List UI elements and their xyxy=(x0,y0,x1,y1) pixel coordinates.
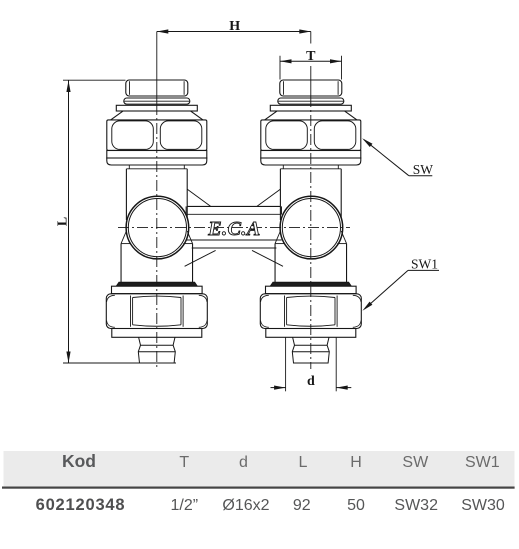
left valve collar xyxy=(112,286,203,293)
svg-text:L: L xyxy=(299,454,308,471)
right valve top thread cap xyxy=(280,80,342,96)
dimension H line xyxy=(157,31,311,33)
svg-text:SW1: SW1 xyxy=(465,454,500,471)
svg-text:T: T xyxy=(306,49,316,64)
right valve barbed tailpiece xyxy=(292,337,329,363)
right valve bottom hex nut SW1 xyxy=(260,294,361,329)
right valve collar xyxy=(266,286,357,293)
left valve bottom washer xyxy=(112,329,202,338)
right valve o-ring collar xyxy=(278,98,344,104)
left valve taper to union nut xyxy=(110,111,123,120)
SW leader and label xyxy=(364,140,409,176)
bridge bottom edge xyxy=(192,247,277,249)
SW1 leader and label xyxy=(365,270,408,309)
right valve flange xyxy=(270,105,351,111)
left valve union nut SW xyxy=(107,120,207,150)
svg-text:Ø16x2: Ø16x2 xyxy=(222,497,269,514)
bridge gusset bottom-right xyxy=(252,250,283,266)
right valve skirt band xyxy=(261,158,361,165)
svg-text:602120348: 602120348 xyxy=(36,496,126,514)
right valve port bore circle xyxy=(280,196,343,259)
bridge gusset bottom-left xyxy=(185,250,216,266)
bridge plaque top line xyxy=(186,213,282,215)
svg-text:L: L xyxy=(55,217,70,226)
dimension T line xyxy=(280,60,342,62)
left valve lower body xyxy=(120,244,122,283)
left valve bottom hex nut SW1 xyxy=(106,294,207,329)
right valve side wedges xyxy=(275,231,280,244)
svg-text:H: H xyxy=(229,19,240,34)
left valve port bore circle xyxy=(126,196,189,259)
dimension d extension lines xyxy=(285,338,287,392)
left valve washer under union nut xyxy=(107,151,207,159)
bridge gusset top-left xyxy=(187,189,210,206)
svg-text:1/2”: 1/2” xyxy=(171,497,199,514)
bridge end connector right xyxy=(281,206,283,214)
svg-text:92: 92 xyxy=(293,497,311,514)
svg-text:T: T xyxy=(179,454,189,471)
bridge top edge xyxy=(187,205,281,207)
right valve centerline xyxy=(310,32,312,44)
left valve o-ring collar xyxy=(124,98,190,104)
svg-text:SW32: SW32 xyxy=(394,497,438,514)
left valve side wedges xyxy=(121,231,126,244)
svg-text:50: 50 xyxy=(347,497,365,514)
svg-text:SW: SW xyxy=(402,454,429,471)
svg-text:d: d xyxy=(307,374,315,389)
right valve bottom washer xyxy=(266,329,356,338)
right valve upper tube xyxy=(279,169,281,220)
svg-text:Kod: Kod xyxy=(62,451,96,471)
left valve skirt band xyxy=(107,158,207,165)
bridge gusset top-right xyxy=(257,189,280,206)
left valve neck xyxy=(128,165,130,169)
left valve flange xyxy=(116,105,197,111)
svg-text:H: H xyxy=(350,454,362,471)
bridge plaque bottom line xyxy=(186,239,282,241)
right valve lower body xyxy=(274,244,276,283)
dimension L line xyxy=(68,81,70,364)
svg-text:SW1: SW1 xyxy=(411,256,438,271)
table header underline xyxy=(2,487,515,489)
bridge end connector left xyxy=(185,206,187,214)
left valve barbed tailpiece xyxy=(138,337,175,363)
right valve washer under union nut xyxy=(261,151,361,159)
left valve centerline xyxy=(156,32,158,105)
right valve union nut SW xyxy=(261,120,361,150)
left valve upper tube xyxy=(125,169,127,220)
svg-text:SW: SW xyxy=(413,162,434,177)
right valve neck xyxy=(282,165,284,169)
svg-text:SW30: SW30 xyxy=(461,497,505,514)
left valve step collar xyxy=(116,282,197,286)
left valve top thread cap xyxy=(126,80,188,96)
right valve taper to union nut xyxy=(264,111,277,120)
horizontal centerline through ports xyxy=(118,227,350,229)
table header background xyxy=(4,451,515,487)
right valve step collar xyxy=(270,282,351,286)
dimension d line xyxy=(271,387,286,389)
svg-text:d: d xyxy=(239,454,248,471)
